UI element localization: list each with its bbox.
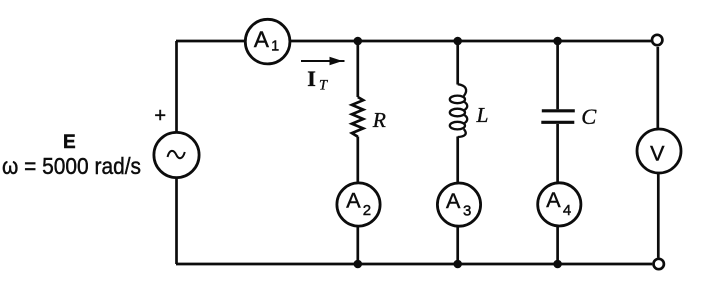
svg-text:E: E	[63, 132, 76, 153]
svg-text:A: A	[446, 189, 461, 213]
svg-text:A: A	[254, 27, 269, 52]
svg-text:ω = 5000 rad/s: ω = 5000 rad/s	[2, 153, 141, 179]
svg-text:3: 3	[463, 203, 471, 220]
svg-text:4: 4	[563, 202, 571, 219]
svg-text:+: +	[154, 105, 166, 127]
svg-text:1: 1	[271, 39, 279, 55]
svg-text:T: T	[319, 78, 328, 94]
svg-text:I: I	[307, 66, 316, 91]
svg-text:A: A	[346, 189, 361, 213]
svg-text:A: A	[546, 188, 561, 212]
svg-text:R: R	[372, 108, 386, 132]
svg-text:2: 2	[363, 202, 371, 219]
svg-text:C: C	[581, 104, 597, 129]
svg-text:L: L	[476, 103, 489, 127]
svg-text:V: V	[650, 142, 665, 166]
